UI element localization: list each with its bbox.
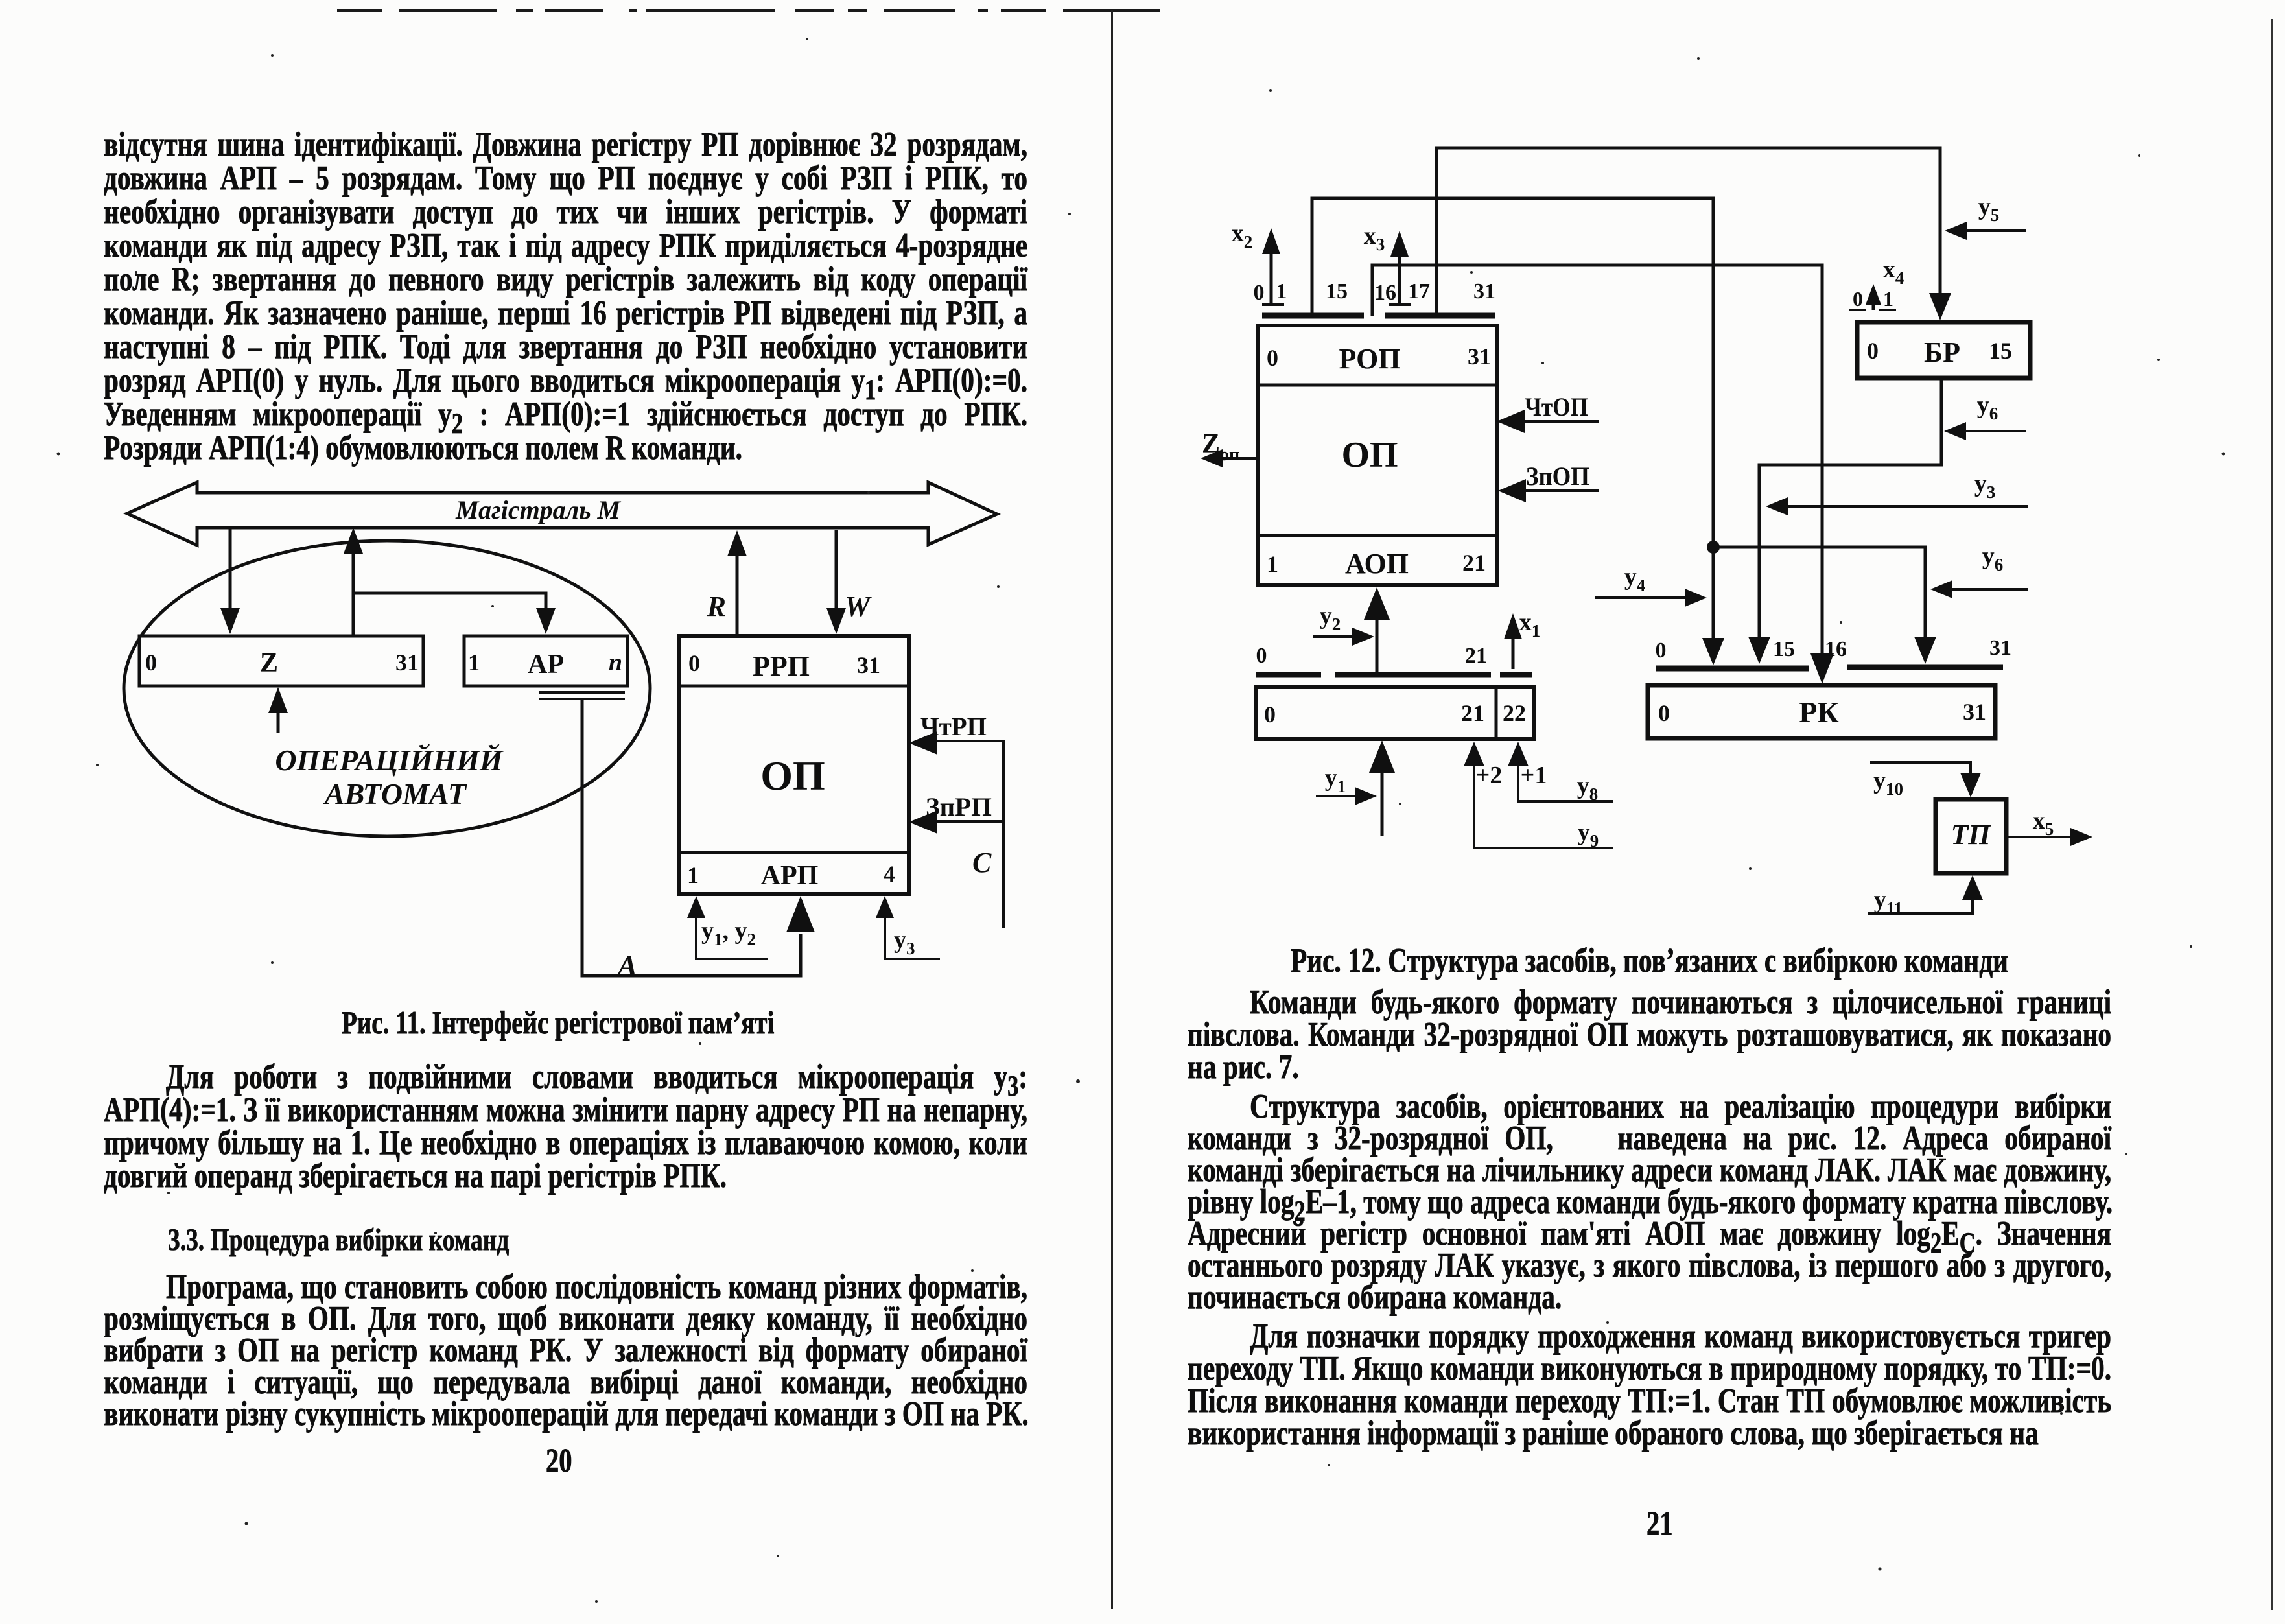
svg-text:Z: Z (260, 648, 278, 678)
register Z (139, 636, 423, 686)
svg-text:0: 0 (1264, 701, 1276, 727)
svg-text:ЧтРП: ЧтРП (920, 712, 987, 741)
register АР (464, 636, 627, 686)
svg-text:W: W (845, 591, 872, 622)
svg-text:0: 0 (145, 650, 157, 676)
svg-text:у1: у1 (1325, 764, 1346, 796)
signal y5 (1952, 229, 2026, 232)
signal y3 (1774, 505, 2028, 508)
wire bus to Z (229, 528, 232, 616)
ЛАК bit rail (1256, 672, 1532, 678)
junction dot (1707, 541, 1720, 554)
caption fig 11 (342, 1004, 774, 1041)
svg-text:0: 0 (1867, 338, 1879, 364)
svg-text:4: 4 (884, 861, 895, 887)
page number 21 (1646, 1505, 1673, 1543)
svg-text:1: 1 (1267, 551, 1278, 577)
svg-text:АОП: АОП (1345, 548, 1409, 580)
svg-text:21: 21 (1462, 550, 1486, 576)
svg-text:БР: БР (1924, 336, 1960, 368)
stub y3 into АРП (885, 915, 940, 959)
wire ЛАК to АОП (1376, 617, 1379, 673)
signal y1 into ЛАК (1381, 773, 1384, 836)
page number 20 (546, 1442, 572, 1480)
signal x2 (1270, 248, 1273, 305)
svg-text:у1, у2: у1, у2 (701, 917, 756, 949)
АР double underline (539, 692, 625, 699)
svg-text:15: 15 (1989, 338, 2012, 364)
svg-text:31: 31 (395, 650, 419, 676)
svg-text:х5: х5 (2033, 807, 2054, 839)
signal ЧтОП (1497, 410, 1525, 433)
svg-text:1: 1 (1276, 279, 1287, 303)
svg-text:15: 15 (1326, 279, 1348, 303)
wire W down from bus (835, 530, 838, 616)
svg-text:у3: у3 (894, 926, 915, 958)
svg-text:РОП: РОП (1339, 343, 1400, 375)
heading 3.3 (168, 1222, 509, 1258)
svg-text:у5: у5 (1978, 193, 2000, 225)
svg-text:ЗпРП: ЗпРП (926, 792, 992, 821)
wire R up to bus (736, 548, 739, 636)
svg-text:22: 22 (1503, 700, 1526, 726)
wire OA horiz to АР (353, 593, 546, 616)
svg-text:у10: у10 (1873, 767, 1903, 799)
signal x1 (1512, 634, 1515, 669)
svg-text:31: 31 (1468, 344, 1491, 370)
svg-text:АР: АР (528, 650, 564, 679)
signal x3 (1398, 250, 1401, 305)
signal ЗпРП (909, 810, 937, 834)
svg-text:у3: у3 (1974, 470, 1996, 502)
signal y6 lower (1938, 588, 2028, 591)
wire РОП(17:31) to БР (1436, 148, 1940, 316)
svg-text:у11: у11 (1874, 886, 1903, 918)
svg-text:0: 0 (1254, 281, 1265, 305)
register file box РРП/ОП/АРП (679, 636, 909, 894)
register ЛАК (1256, 687, 1534, 739)
svg-text:ЧтОП: ЧтОП (1525, 392, 1588, 421)
svg-text:1: 1 (1883, 287, 1893, 311)
signal x5 out (2006, 836, 2082, 838)
svg-text:ТП: ТП (1951, 819, 1991, 851)
wire РОП(16) to РК top (1372, 265, 1822, 653)
svg-text:0: 0 (1853, 287, 1863, 311)
svg-text:у8: у8 (1577, 772, 1599, 804)
signal ЧтРП (909, 731, 937, 755)
main memory box РОП/ОП/АОП (1258, 325, 1497, 585)
svg-text:АВТОМАТ: АВТОМАТ (323, 777, 467, 810)
svg-text:0: 0 (688, 650, 700, 676)
signal y2 (1313, 635, 1364, 638)
svg-text:31: 31 (1989, 636, 2011, 660)
svg-text:ОП: ОП (1341, 435, 1398, 475)
svg-text:ОП: ОП (760, 753, 825, 799)
signal y10 (1870, 762, 1971, 778)
register БР (1857, 322, 2030, 378)
right page edge line (2271, 19, 2273, 1610)
signal +2 / y9 (1474, 764, 1613, 848)
register РК (1648, 685, 1995, 738)
page top dashed rule (0, 0, 2285, 19)
svg-text:х3: х3 (1364, 222, 1385, 254)
signal ЗпОП (1498, 479, 1526, 502)
svg-text:15: 15 (1773, 637, 1795, 661)
signal y11 (1868, 896, 1973, 913)
svg-text:А: А (616, 949, 638, 982)
svg-text:у2: у2 (1320, 602, 1341, 634)
svg-text:31: 31 (857, 652, 880, 678)
caption fig 12 (1291, 941, 2008, 980)
svg-text:+1: +1 (1521, 762, 1547, 789)
branch dot to РК right (1713, 547, 1925, 642)
trigger ТП box (1936, 799, 2006, 873)
wire C vertical (1002, 741, 1005, 928)
svg-text:у6: у6 (1977, 392, 1998, 423)
signal y4 (1595, 596, 1697, 599)
signal x4 (1849, 309, 1896, 311)
svg-text:0: 0 (1256, 644, 1267, 668)
svg-text:у9: у9 (1578, 819, 1599, 851)
svg-text:0: 0 (1656, 639, 1667, 663)
svg-text:Магістраль М: Магістраль М (455, 495, 622, 524)
svg-text:0: 0 (1267, 345, 1278, 371)
svg-text:1: 1 (468, 650, 480, 676)
wire A from АР to АРП (582, 699, 801, 976)
signal y6 upper (1951, 430, 2026, 432)
svg-text:х2: х2 (1232, 220, 1253, 252)
РК bit rail (1656, 667, 2003, 668)
svg-text:31: 31 (1473, 279, 1495, 303)
РОП bit rail (1262, 313, 1495, 319)
svg-text:ЗпОП: ЗпОП (1526, 462, 1589, 491)
svg-text:0: 0 (1658, 700, 1670, 726)
svg-text:21: 21 (1465, 644, 1487, 668)
wire БР to РК bit15 (1759, 378, 1941, 642)
svg-text:n: n (609, 649, 622, 676)
svg-text:16: 16 (1825, 637, 1847, 661)
svg-text:РРП: РРП (753, 650, 810, 682)
svg-text:21: 21 (1461, 700, 1484, 726)
svg-text:х4: х4 (1883, 256, 1904, 288)
svg-text:16: 16 (1374, 281, 1396, 305)
svg-text:х1: х1 (1519, 609, 1541, 641)
signal Zоп out (1211, 457, 1258, 460)
svg-text:31: 31 (1963, 699, 1986, 725)
svg-text:R: R (707, 591, 726, 622)
wire up into Z bottom (277, 704, 280, 733)
signal +1 / y8 (1518, 764, 1613, 801)
svg-text:1: 1 (687, 862, 699, 888)
svg-text:у6: у6 (1982, 543, 2004, 574)
wire OA to bus (352, 546, 355, 635)
svg-text:С: С (972, 847, 992, 878)
centre gutter line (1111, 10, 1113, 1609)
stub y1,y2 into АРП (696, 915, 768, 959)
bus Магістраль М (127, 482, 997, 545)
operational automaton ellipse (124, 541, 650, 836)
svg-text:17: 17 (1408, 279, 1430, 303)
svg-text:РК: РК (1799, 696, 1838, 729)
svg-text:+2: +2 (1476, 762, 1503, 789)
svg-text:у4: у4 (1624, 563, 1646, 595)
wire РОП(1:15) to РК left (1312, 198, 1713, 642)
svg-text:АРП: АРП (761, 861, 819, 891)
svg-text:ОПЕРАЦІЙНИЙ: ОПЕРАЦІЙНИЙ (275, 743, 503, 777)
